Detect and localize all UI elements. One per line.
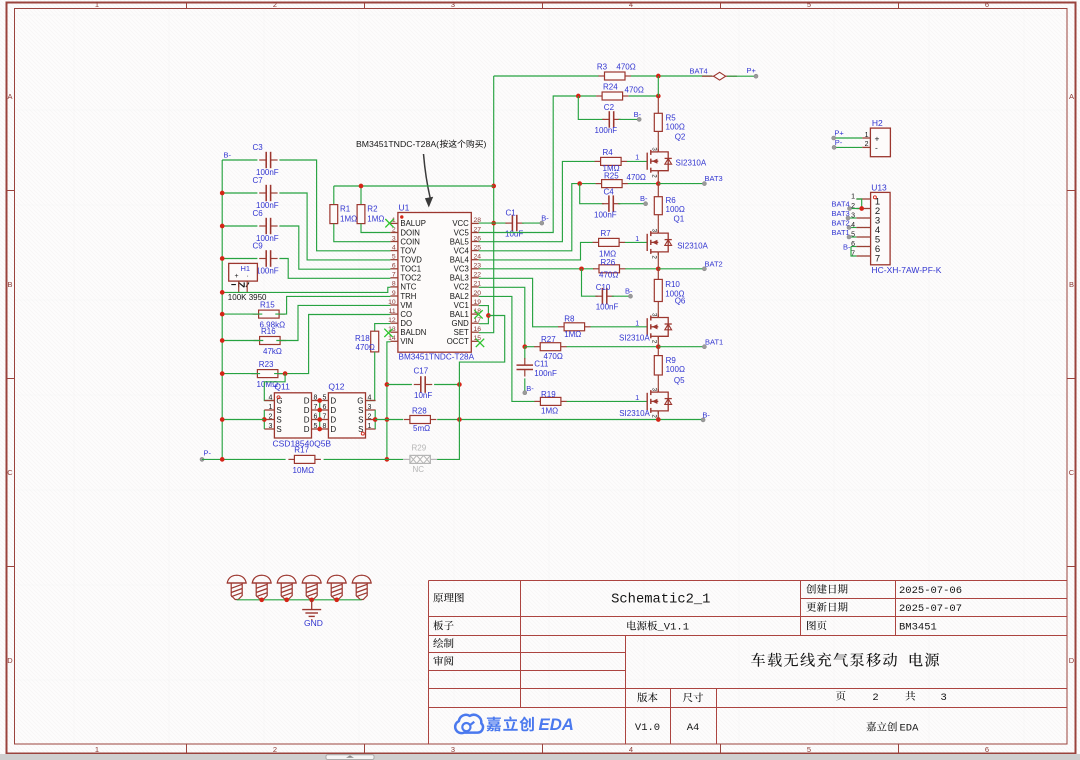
svg-text:R1: R1 <box>340 205 351 214</box>
svg-text:S: S <box>276 406 281 415</box>
svg-text:TOVD: TOVD <box>400 256 422 265</box>
junction <box>491 184 496 189</box>
wire B- to U13 pin6 <box>851 246 856 248</box>
svg-text:16: 16 <box>474 326 482 333</box>
junction <box>220 256 225 261</box>
junction <box>284 597 289 602</box>
junction <box>220 457 225 462</box>
svg-text:SI2310A: SI2310A <box>619 333 650 342</box>
transistor Q5 <box>619 375 685 418</box>
svg-text:1: 1 <box>368 423 372 430</box>
wire B- to C7 <box>222 192 257 194</box>
svg-text:GND: GND <box>304 618 323 628</box>
svg-text:D: D <box>330 406 336 415</box>
wire VC1 <box>479 306 489 316</box>
svg-text:TOC1: TOC1 <box>400 265 421 274</box>
port BAT4 (U13) <box>832 199 852 210</box>
svg-text:C4: C4 <box>604 187 615 196</box>
wire C2 tap <box>578 96 604 119</box>
wire R25 to drain rail <box>628 183 658 185</box>
svg-text:2: 2 <box>650 255 657 259</box>
svg-text:10uF: 10uF <box>505 230 523 239</box>
svg-text:VC4: VC4 <box>454 246 470 255</box>
net label BAT1 <box>702 337 723 348</box>
svg-text:R10: R10 <box>665 280 680 289</box>
capacitor C6 <box>253 209 279 243</box>
svg-text:5: 5 <box>392 254 396 261</box>
svg-text:8: 8 <box>322 423 326 430</box>
svg-text:100nF: 100nF <box>595 126 618 135</box>
svg-text:21: 21 <box>474 281 482 288</box>
junction <box>656 181 661 186</box>
svg-text:BAL1: BAL1 <box>450 310 469 319</box>
svg-text:2: 2 <box>650 340 657 344</box>
svg-text:22: 22 <box>474 272 482 279</box>
svg-text:BAL3: BAL3 <box>450 274 469 283</box>
svg-text:470Ω: 470Ω <box>356 343 375 352</box>
svg-text:BALDN: BALDN <box>400 328 426 337</box>
wire R4 to gate <box>627 160 647 162</box>
wire R23 to Q11 gate <box>264 374 285 401</box>
wire Q6 source <box>657 336 659 346</box>
svg-text:SI2310A: SI2310A <box>619 409 650 418</box>
svg-text:5: 5 <box>322 395 326 402</box>
junction <box>486 313 491 318</box>
junction <box>385 417 390 422</box>
mounting screw S3 <box>277 575 296 599</box>
svg-text:3: 3 <box>650 229 657 233</box>
wire P- to H2 <box>834 146 862 148</box>
connector H2 <box>862 118 890 157</box>
wire Q12 sources tie <box>374 410 376 429</box>
wire R24 to drain rail <box>629 95 659 97</box>
wire VIN rail <box>387 342 391 460</box>
resistor R19 <box>534 390 567 415</box>
junction <box>373 417 378 422</box>
resistor R27 <box>534 335 567 361</box>
wire C3 to pin TOV <box>279 160 390 251</box>
svg-text:B: B <box>7 280 12 289</box>
svg-text:2: 2 <box>650 174 657 178</box>
svg-text:R24: R24 <box>603 83 618 92</box>
wire R1R2 top rail <box>334 185 494 187</box>
svg-text:6: 6 <box>985 745 989 754</box>
resistor R6 <box>654 184 685 215</box>
svg-text:C6: C6 <box>253 209 264 218</box>
svg-text:Q2: Q2 <box>675 133 686 142</box>
junction <box>457 417 462 422</box>
wire BAT2 to U13 <box>849 227 856 229</box>
svg-text:3: 3 <box>392 235 396 242</box>
mounting screw S6 <box>352 575 371 599</box>
no-connect X pin 15 <box>476 339 484 347</box>
svg-text:1: 1 <box>635 395 639 402</box>
port P- <box>200 449 212 462</box>
svg-text:11: 11 <box>389 308 396 315</box>
svg-text:2: 2 <box>872 692 878 704</box>
junction <box>220 191 225 196</box>
junction <box>859 206 864 211</box>
wire NTC <box>222 287 390 292</box>
svg-text:B: B <box>1069 280 1074 289</box>
junction <box>656 266 661 271</box>
svg-text:R18: R18 <box>355 334 370 343</box>
svg-text:7: 7 <box>875 253 880 264</box>
svg-text:S: S <box>358 406 363 415</box>
wire BAT3 <box>658 183 704 185</box>
resistor R2 <box>357 205 384 224</box>
svg-text:1MΩ: 1MΩ <box>367 215 384 224</box>
svg-text:D: D <box>304 397 310 406</box>
junction <box>522 344 527 349</box>
junction <box>220 290 225 295</box>
svg-text:C: C <box>1069 468 1075 477</box>
no-connect X pin 18 <box>474 310 482 318</box>
svg-text:R9: R9 <box>666 356 677 365</box>
wire Q2 source <box>657 171 659 184</box>
mounting screw S1 <box>227 575 246 599</box>
wire B- row left <box>222 419 264 421</box>
wire R15 to TRH <box>275 296 390 314</box>
svg-text:100Ω: 100Ω <box>666 123 685 132</box>
junction <box>220 371 225 376</box>
wire Q1 source <box>657 252 659 269</box>
svg-text:C10: C10 <box>596 283 611 292</box>
svg-text:GND: GND <box>451 319 469 328</box>
junction <box>491 221 496 226</box>
svg-text:R5: R5 <box>666 114 677 123</box>
wire R2 top <box>360 186 362 205</box>
svg-text:4: 4 <box>629 0 633 9</box>
svg-text:3: 3 <box>451 745 455 754</box>
svg-text:TRH: TRH <box>400 292 416 301</box>
ic U1 BM3451TNDC-T28A <box>388 203 481 362</box>
svg-text:R8: R8 <box>564 315 575 324</box>
svg-text:Q6: Q6 <box>675 297 686 306</box>
wire GND pin <box>479 316 489 324</box>
wire P+ to H2 <box>834 137 863 139</box>
svg-text:EDA: EDA <box>900 722 920 734</box>
svg-text:C1: C1 <box>506 209 517 218</box>
junction <box>656 74 661 79</box>
junction <box>576 94 581 99</box>
wire B- row mid <box>375 419 403 421</box>
junction <box>309 597 314 602</box>
svg-text:BAL4: BAL4 <box>450 256 470 265</box>
resistor R17 <box>288 445 321 475</box>
title block grid <box>429 581 1068 745</box>
svg-text:R29: R29 <box>412 444 427 453</box>
junction <box>317 398 322 403</box>
ground <box>302 600 323 628</box>
svg-text:BAL5: BAL5 <box>450 237 470 246</box>
svg-text:100Ω: 100Ω <box>666 365 685 374</box>
svg-text:R19: R19 <box>541 390 556 399</box>
wire VC4 riser <box>479 184 596 251</box>
svg-text:VCC: VCC <box>452 219 469 228</box>
resistor R9 <box>654 347 685 375</box>
svg-text:TOC2: TOC2 <box>400 274 421 283</box>
svg-text:_V1.1: _V1.1 <box>657 621 690 633</box>
title block text <box>433 584 962 734</box>
junction <box>262 417 267 422</box>
svg-text:2: 2 <box>392 226 396 233</box>
svg-text:H2: H2 <box>872 118 883 128</box>
net label B- (C11) <box>523 384 535 395</box>
svg-text:2: 2 <box>268 414 272 421</box>
wire Q11 sources tie <box>263 410 265 429</box>
net label BAT2 <box>702 259 722 270</box>
svg-text:5: 5 <box>807 745 811 754</box>
svg-text:8: 8 <box>314 395 318 402</box>
svg-text:D: D <box>330 397 336 406</box>
junction <box>259 597 264 602</box>
junction <box>317 417 322 422</box>
svg-text:A: A <box>1069 92 1074 101</box>
wire R1 top <box>333 186 335 205</box>
svg-text:C7: C7 <box>253 176 264 185</box>
svg-text:BAT1: BAT1 <box>705 337 723 346</box>
svg-text:D: D <box>330 416 336 425</box>
svg-text:5mΩ: 5mΩ <box>413 424 430 433</box>
svg-text:DO: DO <box>400 319 412 328</box>
resistor R4 <box>595 148 628 173</box>
svg-text:19: 19 <box>474 299 482 306</box>
resistor R18 <box>355 331 379 352</box>
wire P- to R17 <box>202 458 286 460</box>
svg-text:2025-07-07: 2025-07-07 <box>899 603 962 615</box>
wire BAT2 <box>658 268 704 270</box>
svg-text:G: G <box>357 397 363 406</box>
svg-text:7: 7 <box>392 272 396 279</box>
junction <box>385 382 390 387</box>
resistor R10 <box>654 269 684 302</box>
wire VC5 riser <box>479 96 596 233</box>
svg-text:C17: C17 <box>414 367 429 376</box>
svg-text:2: 2 <box>273 745 277 754</box>
svg-text:3: 3 <box>368 404 372 411</box>
svg-text:NC: NC <box>413 465 425 474</box>
svg-text:7: 7 <box>322 414 326 421</box>
svg-text:470Ω: 470Ω <box>627 173 646 182</box>
svg-text:D: D <box>1069 656 1075 665</box>
svg-text:SET: SET <box>454 328 469 337</box>
junction <box>656 417 661 422</box>
svg-text:S: S <box>358 416 363 425</box>
svg-text:R7: R7 <box>601 229 612 238</box>
resistor R24 <box>596 83 644 100</box>
wire BAL5 riser <box>479 161 595 241</box>
wire BAL2 riser <box>479 296 535 401</box>
wire Q11-Q12 drains tie <box>319 401 321 430</box>
capacitor C7 <box>253 176 279 210</box>
wire C1 to B- <box>522 222 542 224</box>
wire R7 to gate <box>625 241 647 243</box>
wire C7 to chip <box>279 193 390 260</box>
wire C6 to chip <box>279 226 390 269</box>
junction <box>220 338 225 343</box>
svg-text:5: 5 <box>807 0 811 9</box>
svg-text:470Ω: 470Ω <box>625 86 644 95</box>
svg-text:BALUP: BALUP <box>400 219 426 228</box>
net label B- (bottom) <box>701 411 710 422</box>
svg-text:R26: R26 <box>601 258 616 267</box>
svg-text:BAT3: BAT3 <box>705 174 723 183</box>
svg-text:6: 6 <box>985 0 989 9</box>
svg-text:DOIN: DOIN <box>400 228 420 237</box>
svg-text:9: 9 <box>392 290 396 297</box>
svg-text:TOV: TOV <box>400 246 417 255</box>
svg-text:1MΩ: 1MΩ <box>541 407 558 416</box>
junction <box>359 184 364 189</box>
svg-text:10: 10 <box>388 299 396 306</box>
svg-text:3: 3 <box>268 423 272 430</box>
svg-text:3: 3 <box>941 692 947 704</box>
wire rail to R23 <box>222 373 260 375</box>
svg-text:B-: B- <box>526 384 534 393</box>
svg-text:1MΩ: 1MΩ <box>340 215 357 224</box>
wire BAT1 <box>658 346 704 348</box>
junction <box>220 417 225 422</box>
svg-text:100Ω: 100Ω <box>666 205 685 214</box>
resistor R5 <box>654 96 685 132</box>
net label B- (C4) <box>640 194 648 206</box>
svg-text:1: 1 <box>268 404 272 411</box>
wire DO to R18 <box>375 324 391 332</box>
capacitor C17 <box>414 367 433 400</box>
svg-text:D: D <box>304 416 310 425</box>
wire B- to C6 <box>222 225 257 227</box>
junction <box>220 224 225 229</box>
svg-text:S: S <box>276 416 281 425</box>
svg-text:OCCT: OCCT <box>447 337 469 346</box>
mounting screw S5 <box>327 575 346 599</box>
svg-text:P+: P+ <box>834 129 844 138</box>
svg-text:C: C <box>7 468 13 477</box>
svg-text:A4: A4 <box>687 722 700 734</box>
transistor Q6 <box>619 297 686 344</box>
svg-text:D: D <box>7 656 13 665</box>
svg-text:): ) <box>484 139 487 149</box>
wire <box>524 347 526 360</box>
junction <box>579 266 584 271</box>
svg-text:R28: R28 <box>412 407 427 416</box>
annotation text <box>356 139 487 149</box>
wire BAT3 to U13 <box>848 217 856 219</box>
junction <box>220 312 225 317</box>
wire Q5 source <box>657 411 659 420</box>
svg-text:6: 6 <box>314 414 318 421</box>
wire C2 to B- <box>619 118 640 120</box>
svg-text:C11: C11 <box>534 360 549 369</box>
net flag BAT4 <box>690 67 738 81</box>
junction <box>656 94 661 99</box>
wire R2 to DOIN <box>361 224 390 233</box>
svg-text:2: 2 <box>273 0 277 9</box>
svg-text:100nF: 100nF <box>256 267 279 276</box>
svg-text:BAT4: BAT4 <box>832 199 850 208</box>
svg-text:NTC: NTC <box>400 283 416 292</box>
no-connect X pin 1 <box>385 219 393 227</box>
svg-text:R4: R4 <box>603 148 614 157</box>
svg-text:VIN: VIN <box>400 337 413 346</box>
svg-text:HC-XH-7AW-PF-K: HC-XH-7AW-PF-K <box>872 265 942 275</box>
resistor R8 <box>558 315 591 339</box>
wire R17 to rail <box>324 458 387 460</box>
svg-text:BM3451: BM3451 <box>899 622 937 634</box>
connector U13 <box>851 182 942 275</box>
wire R18 to Q12 gate <box>367 352 375 401</box>
capacitor C4 <box>594 187 620 219</box>
wire C10 to B- <box>612 295 631 297</box>
net label B- (C10) <box>625 287 633 299</box>
resistor R25 <box>596 172 646 188</box>
svg-text:4: 4 <box>268 395 272 402</box>
transistor Q12 <box>318 382 375 439</box>
svg-text:S: S <box>358 425 363 434</box>
svg-text:3: 3 <box>451 0 455 9</box>
svg-text:12: 12 <box>388 317 396 324</box>
svg-text:BAT4: BAT4 <box>690 67 708 76</box>
wire BAL3 riser <box>479 278 559 327</box>
transistor Q1 <box>635 215 708 260</box>
svg-text:A: A <box>7 92 12 101</box>
wire BAT4 to U13 <box>850 208 862 210</box>
wire to C17 <box>387 384 412 386</box>
svg-text:Schematic2_1: Schematic2_1 <box>611 591 710 607</box>
svg-text:2: 2 <box>865 141 869 148</box>
svg-text:3: 3 <box>650 313 657 317</box>
junction <box>385 457 390 462</box>
svg-text:R6: R6 <box>666 196 677 205</box>
wire R29 right <box>437 385 459 460</box>
svg-text:C9: C9 <box>253 242 264 251</box>
wire C9 to chip <box>279 259 390 279</box>
resistor R16 <box>254 327 287 356</box>
svg-text:10MΩ: 10MΩ <box>293 466 315 475</box>
port P- (H2) <box>832 138 843 150</box>
wire R23 to CO <box>274 315 390 374</box>
capacitor C10 <box>595 283 618 312</box>
svg-text:100nF: 100nF <box>594 211 617 220</box>
svg-text:1: 1 <box>635 236 639 243</box>
net label B- (C1) <box>540 213 550 225</box>
port BAT1 (U13) <box>832 228 852 239</box>
svg-text:4: 4 <box>368 395 372 402</box>
svg-text:Q11: Q11 <box>274 382 290 392</box>
port P+ (top) <box>747 66 759 78</box>
svg-text:R15: R15 <box>260 301 275 310</box>
svg-text:R27: R27 <box>541 335 556 344</box>
svg-text:2: 2 <box>368 414 372 421</box>
svg-text:470Ω: 470Ω <box>599 271 618 280</box>
wire C10 tap <box>582 269 598 296</box>
svg-text:1: 1 <box>851 194 855 201</box>
svg-text:D: D <box>330 425 336 434</box>
wire screws tie <box>237 599 362 601</box>
svg-text:COIN: COIN <box>400 237 420 246</box>
svg-text:R2: R2 <box>367 205 378 214</box>
svg-text:1: 1 <box>865 132 869 139</box>
bottom scrollbar strip <box>0 754 1080 760</box>
wire R19 to gate <box>567 400 648 402</box>
svg-text:D: D <box>304 425 310 434</box>
svg-text:BAL2: BAL2 <box>450 292 469 301</box>
svg-text:BM3451TNDC-T28A(: BM3451TNDC-T28A( <box>356 139 439 149</box>
wire C4 tap <box>580 184 604 204</box>
svg-text:SI2310A: SI2310A <box>677 242 708 251</box>
wire GND to C17 column <box>459 316 504 385</box>
